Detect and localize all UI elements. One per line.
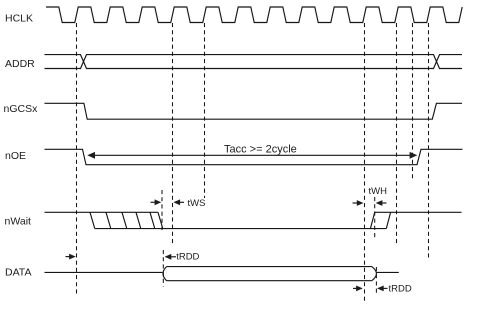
wire nWait hatch band bottom edge and low line (95, 228, 387, 230)
node clock edge guide x=204.5 (204, 23, 206, 198)
wire ADDR bus rail top with crossover (45, 55, 463, 69)
node clock edge guide x=172.5 (172, 23, 174, 246)
node clock edge guide x=76.5 (76, 23, 78, 295)
svg-text:nGCSx: nGCSx (4, 103, 39, 115)
wire nWait hatch slash 1 (106, 212, 111, 228)
svg-text:tRDD: tRDD (176, 252, 199, 263)
svg-text:nWait: nWait (5, 215, 32, 227)
dimension Tacc arrow (87, 152, 417, 159)
wire nWait hatch slash 2 (122, 212, 127, 228)
wire nWait high line after rise (375, 211, 462, 213)
wire ADDR bus rail bottom with crossover (45, 55, 463, 69)
svg-text:ADDR: ADDR (5, 58, 35, 70)
dimension tWH arrows (353, 200, 387, 206)
wire nWait hatch entry slope (90, 212, 95, 228)
wire DATA single line left (45, 271, 163, 273)
dimension tWS arrows (151, 199, 185, 205)
node tRDD tick x=376.4 (375, 267, 377, 295)
wire nWait hatch slash 3 (136, 212, 141, 228)
wire HCLK clock waveform (46, 7, 462, 23)
node tWH tick x=374.7 (374, 197, 376, 240)
dimension tRDD arrow 1 (165, 254, 176, 260)
wire nWait rise parallelogram right slope (386, 212, 390, 228)
svg-text:tWS: tWS (188, 198, 206, 209)
wire nWait hatch slash 4 (150, 212, 155, 228)
svg-text:nOE: nOE (5, 150, 26, 162)
node tWS tick x=162 (161, 190, 163, 233)
dashed guide lines (77, 23, 429, 302)
wire nWait high segment (45, 211, 91, 213)
dimension DATA row left arrow (66, 254, 76, 260)
svg-text:HCLK: HCLK (5, 12, 33, 24)
dimension tRDD arrow 2 set (353, 286, 388, 292)
wire nWait hatch band top edge (90, 211, 158, 213)
svg-text:tWH: tWH (369, 186, 388, 197)
node clock edge guide x=412.5 (412, 23, 414, 179)
node clock edge guide x=428.5 (428, 23, 430, 258)
svg-text:tRDD: tRDD (389, 284, 412, 295)
wire DATA single line right (376, 271, 399, 273)
svg-text:DATA: DATA (5, 267, 31, 279)
wire DATA valid box (163, 267, 376, 281)
wire nWait hatch exit slope (158, 212, 163, 228)
wire nWait rise parallelogram left slope (370, 212, 374, 228)
node tRDD tick x=163.3 (162, 250, 164, 287)
wire nGCSx signal (45, 103, 463, 119)
svg-text:Tacc >= 2cycle: Tacc >= 2cycle (224, 143, 297, 155)
node clock edge guide x=364.5 (364, 23, 366, 302)
wire nOE signal (45, 149, 463, 164)
node clock edge guide x=396.5 (396, 23, 398, 244)
